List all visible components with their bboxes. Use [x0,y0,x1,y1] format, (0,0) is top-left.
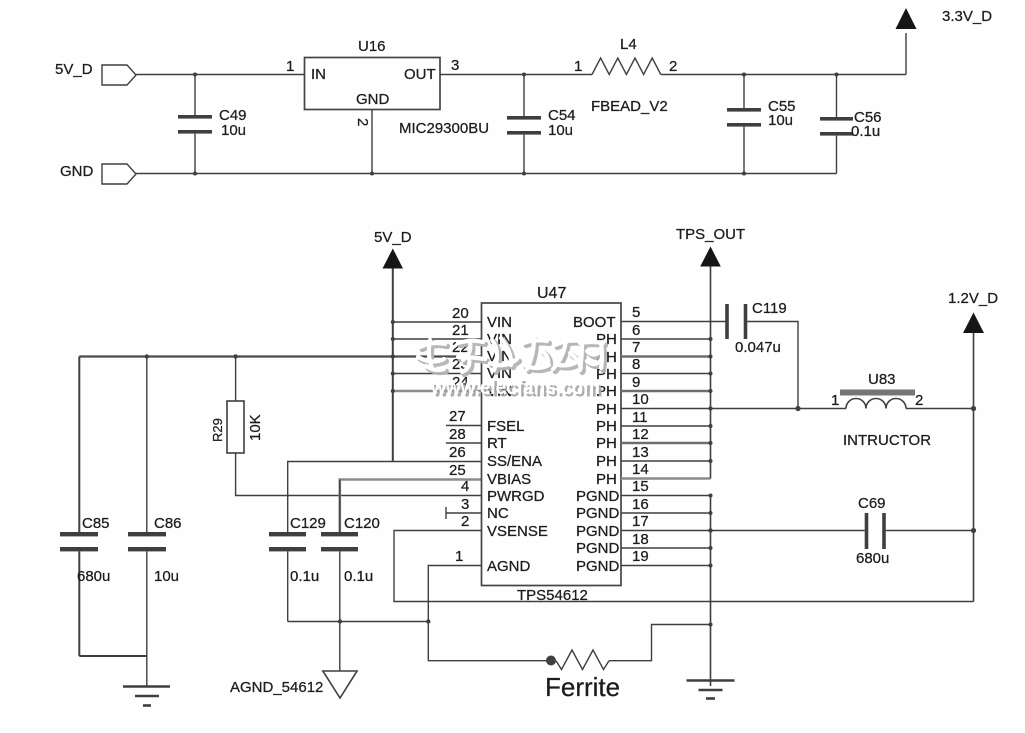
pin 10 PH phase wire to inductor [621,408,846,410]
svg-text:2: 2 [354,118,371,126]
svg-text:3: 3 [451,57,459,74]
svg-text:3.3V_D: 3.3V_D [942,8,992,25]
pin 12 PH stub [621,442,711,444]
svg-text:10u: 10u [768,112,793,129]
svg-text:16: 16 [632,496,649,513]
svg-text:C120: C120 [344,515,380,532]
PGND bus vertical [710,496,712,687]
svg-text:10K: 10K [247,414,264,441]
svg-text:15: 15 [632,478,649,495]
svg-text:VSENSE: VSENSE [487,523,548,540]
svg-text:19: 19 [632,548,649,565]
svg-text:IN: IN [311,66,326,83]
power 5V_D stem [392,267,394,462]
svg-text:TPS54612: TPS54612 [517,587,588,604]
svg-text:680u: 680u [77,568,110,585]
pin 14 PH stub [621,477,711,480]
svg-text:7: 7 [632,339,640,356]
U47 pin numbers left [449,305,469,565]
capacitor C85 [60,357,98,657]
pin 19 PGND stub [621,565,711,567]
power symbol 3.3V_D arrow [896,8,917,29]
pin 24 VIN stub [393,390,482,393]
ferrite left junction dot [546,656,556,666]
svg-text:18: 18 [632,531,649,548]
svg-text:25: 25 [449,462,466,479]
svg-text:5: 5 [632,304,640,321]
U47 pin names [487,314,620,575]
wire AGND tie C129 C120 [288,621,429,623]
ground AGND_54612 triangle [323,671,357,698]
pin 11 PH stub [621,425,711,427]
svg-text:6: 6 [632,322,640,339]
power 5V_D arrow bottom [383,249,404,269]
svg-text:R29: R29 [210,418,225,442]
svg-text:U16: U16 [358,38,386,55]
pin 9 PH stub [621,390,711,392]
svg-text:PH: PH [596,453,617,470]
svg-text:0.047u: 0.047u [735,339,781,356]
wire VSENSE path [394,531,974,602]
svg-text:10: 10 [632,391,649,408]
pin 6 PH stub [621,338,711,340]
svg-text:www.elecfans.com: www.elecfans.com [430,375,600,399]
pin 17 PGND stub and C69 wire [621,530,711,532]
pin 18 PGND stub [621,547,711,549]
svg-text:U83: U83 [868,371,896,388]
svg-text:PH: PH [596,418,617,435]
wire AGND pin1 path [428,566,551,661]
svg-text:10u: 10u [221,122,246,139]
ferrite bead zigzag [556,650,609,670]
wire VBIAS row with C120 [340,480,482,533]
resistor R29 [227,357,482,496]
svg-text:11: 11 [632,409,648,426]
IC U16 box [305,58,441,110]
svg-text:L4: L4 [620,36,637,53]
svg-text:TPS_OUT: TPS_OUT [676,226,745,243]
power 1.2V_D arrow and stem [963,313,984,602]
svg-text:0.1u: 0.1u [851,123,880,140]
svg-text:PH: PH [596,401,617,418]
svg-text:1: 1 [831,392,839,409]
svg-text:10u: 10u [154,568,179,585]
pin 21 VIN stub [393,338,482,340]
wire L4 to output [661,74,906,76]
svg-text:GND: GND [60,163,94,180]
svg-text:26: 26 [449,444,466,461]
pin 8 PH stub [621,373,711,375]
wire 5V rail row22 [79,355,481,357]
svg-text:VIN: VIN [487,314,512,331]
ground symbol below C86 [123,687,170,706]
svg-text:17: 17 [632,513,649,530]
inductor L4 FBEAD_V2 zigzag [592,58,661,75]
svg-text:NC: NC [487,505,509,522]
pin 13 PH stub [621,460,711,462]
BOTTOM SECTION wires [60,267,974,706]
inductor U83 [840,390,974,409]
TOP SECTION [102,33,906,184]
pin 15 PGND stub [621,495,711,497]
svg-text:2: 2 [915,392,923,409]
svg-text:13: 13 [632,444,649,461]
U47 pin stubs [393,265,846,699]
wire C85 bottom to C86 bottom [79,655,147,657]
svg-text:SS/ENA: SS/ENA [487,453,542,470]
power TPS_OUT arrow [700,247,721,267]
svg-text:0.1u: 0.1u [344,568,373,585]
capacitor C55 [727,75,761,174]
svg-text:8: 8 [632,356,640,373]
pin 28 RT stub [446,442,482,444]
pin 16 PGND stub [621,512,711,514]
capacitor C86 [128,357,166,687]
svg-text:680u: 680u [856,550,889,567]
svg-text:PWRGD: PWRGD [487,488,545,505]
ground symbol below PGND bus [687,681,735,699]
svg-text:2: 2 [461,513,469,530]
svg-text:C86: C86 [154,515,182,532]
pin 7 PH stub [621,355,711,357]
svg-text:12: 12 [632,426,649,443]
svg-text:PGND: PGND [576,505,620,522]
svg-text:5V_D: 5V_D [374,229,412,246]
svg-text:AGND_54612: AGND_54612 [230,679,323,696]
junction dots bottom section [145,320,977,666]
svg-text:RT: RT [487,435,507,452]
pin 23 VIN stub [393,373,482,375]
svg-text:1: 1 [455,548,463,565]
wire ferrite to PGND bus [609,625,711,661]
top section labels [55,8,992,180]
svg-text:1.2V_D: 1.2V_D [948,290,998,307]
svg-text:10u: 10u [548,122,573,139]
svg-text:1: 1 [574,58,582,75]
pin 5 BOOT stub to C119 [621,321,727,323]
IC U47 box [482,303,622,586]
svg-text:0.1u: 0.1u [290,568,319,585]
svg-text:GND: GND [356,91,390,108]
capacitor C49 [178,75,212,174]
capacitor C56 [820,75,853,174]
svg-text:PH: PH [596,435,617,452]
svg-text:PGND: PGND [576,488,620,505]
capacitor C69 [711,513,974,549]
TPS_OUT phase bus vertical [710,265,712,479]
wire GND rail top section [136,173,837,175]
pin 20 VIN stub [393,321,482,323]
svg-text:FSEL: FSEL [487,418,525,435]
svg-text:MIC29300BU: MIC29300BU [399,120,489,137]
pin 3 NC stub [446,512,482,514]
bottom section labels [77,226,998,702]
watermark www.elecfans.com and chinese logo [418,338,605,402]
svg-text:C85: C85 [82,515,110,532]
svg-text:OUT: OUT [404,66,436,83]
wire U16 OUT to L4 [440,74,592,76]
port 5V_D input tag [102,65,136,85]
capacitor C54 [507,75,541,174]
capacitor C129 [269,532,306,622]
svg-text:2: 2 [669,58,677,75]
bootstrap capacitor C119 [725,304,798,409]
svg-text:PH: PH [596,471,617,488]
svg-text:5V_D: 5V_D [55,61,93,78]
svg-text:PGND: PGND [576,540,620,557]
svg-text:9: 9 [632,374,640,391]
svg-text:BOOT: BOOT [573,314,616,331]
port GND input tag [102,164,136,184]
svg-text:PGND: PGND [576,523,620,540]
svg-text:C129: C129 [290,515,326,532]
svg-text:14: 14 [632,461,649,478]
svg-text:C119: C119 [752,300,787,317]
svg-text:FBEAD_V2: FBEAD_V2 [591,98,668,115]
svg-text:AGND: AGND [487,558,531,575]
svg-text:28: 28 [449,426,466,443]
svg-text:3: 3 [461,496,469,513]
capacitor C120 [321,532,358,671]
svg-text:INTRUCTOR: INTRUCTOR [843,432,931,449]
wire riser to 3.3V_D [905,33,907,75]
svg-text:VBIAS: VBIAS [487,471,531,488]
svg-text:PGND: PGND [576,558,620,575]
svg-text:20: 20 [452,305,469,322]
junction dots top section [193,73,839,176]
svg-text:1: 1 [286,58,294,75]
wire 5V_D to U16 IN [136,74,305,76]
svg-text:Ferrite: Ferrite [545,672,620,702]
wire U16 GND pin 2 [371,110,373,174]
wire SS/ENA row with C129 [288,462,482,533]
pin 27 FSEL stub [446,425,482,427]
svg-text:27: 27 [449,408,466,425]
svg-text:U47: U47 [537,285,566,302]
svg-text:4: 4 [461,478,469,495]
svg-text:C69: C69 [858,495,886,512]
U47 pin numbers right [632,304,649,565]
svg-text:21: 21 [452,322,469,339]
